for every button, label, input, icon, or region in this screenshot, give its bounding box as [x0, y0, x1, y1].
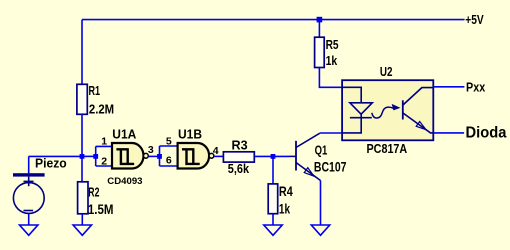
- svg-text:R5: R5: [326, 37, 339, 52]
- svg-text:3: 3: [148, 144, 154, 156]
- svg-text:6: 6: [166, 154, 172, 166]
- wire Pxx: [433, 86, 464, 88]
- wire +5V to R5: [318, 20, 320, 38]
- svg-text:U1A: U1A: [112, 127, 137, 142]
- wire R4 to ground: [272, 214, 274, 225]
- svg-text:R3: R3: [232, 138, 248, 153]
- resistor R5: [315, 37, 325, 67]
- piezo transducer plate: [13, 173, 45, 176]
- ground R2: [73, 225, 91, 235]
- wire U1A pin 1: [96, 145, 112, 147]
- transistor Q1: [289, 133, 321, 180]
- node junction piezo/R1/R2: [80, 154, 85, 159]
- ground piezo: [20, 225, 38, 235]
- op-amp U1B nand gate body: [178, 143, 214, 169]
- wire U1A pin 3 output: [148, 155, 159, 157]
- resistor R4: [268, 184, 278, 214]
- svg-text:+5V: +5V: [465, 12, 484, 27]
- wire node to R4: [272, 156, 274, 184]
- wire node to gate input node: [82, 155, 96, 157]
- svg-text:1k: 1k: [279, 201, 290, 217]
- svg-text:Dioda: Dioda: [466, 125, 507, 142]
- svg-text:U2: U2: [380, 64, 393, 79]
- phototransistor inside U2: [403, 88, 434, 133]
- wire piezo to ground: [28, 213, 30, 225]
- svg-text:2: 2: [101, 155, 107, 167]
- svg-text:R1: R1: [89, 83, 101, 98]
- wire R2 to ground: [81, 214, 83, 225]
- op-amp U1A nand gate body: [112, 143, 148, 169]
- svg-text:Q1: Q1: [315, 142, 328, 157]
- wire U1A pin 2: [96, 165, 112, 167]
- wire Q1 emitter to ground: [320, 181, 322, 226]
- svg-text:CD4093: CD4093: [107, 176, 142, 187]
- resistor R1: [77, 84, 87, 114]
- wire +5V top rail: [82, 19, 465, 21]
- node junction R4/base: [271, 154, 276, 159]
- wire R5 to optocoupler anode: [319, 68, 342, 88]
- wire U1A input vertical: [95, 146, 97, 166]
- svg-text:Pxx: Pxx: [466, 80, 486, 95]
- svg-text:Piezo: Piezo: [35, 155, 67, 170]
- wire left drop from +5V rail to R1: [81, 20, 83, 85]
- svg-text:1k: 1k: [326, 53, 338, 68]
- node junction U1B inputs: [157, 154, 162, 159]
- node junction U1A inputs: [93, 154, 98, 159]
- resistor R3: [223, 152, 254, 162]
- svg-text:2.2M: 2.2M: [89, 102, 114, 117]
- wire Q1 collector to optocoupler: [320, 132, 343, 134]
- ground R4: [264, 225, 282, 235]
- svg-text:R4: R4: [279, 183, 293, 199]
- svg-text:U1B: U1B: [178, 127, 202, 142]
- ground Q1 emitter: [311, 225, 329, 235]
- wire R1 bottom through node to R2: [81, 114, 83, 182]
- svg-text:BC107: BC107: [314, 159, 347, 175]
- wire R3 to Q1 base: [254, 155, 289, 157]
- wire U1B input vertical: [159, 146, 161, 166]
- svg-text:5,6k: 5,6k: [228, 161, 250, 176]
- wire U1B pin 5: [160, 145, 178, 147]
- wire Dioda: [433, 132, 464, 134]
- svg-text:5: 5: [166, 135, 172, 147]
- wire piezo horizontal: [29, 155, 82, 157]
- svg-text:4: 4: [213, 145, 219, 157]
- piezo transducer body: [13, 177, 44, 214]
- wire piezo vertical to plate: [28, 156, 30, 173]
- svg-text:R2: R2: [88, 184, 99, 199]
- diode LED inside U2: [343, 87, 373, 133]
- svg-text:PC817A: PC817A: [367, 141, 408, 156]
- resistor R2: [78, 182, 88, 214]
- node junction +5V/R5: [317, 17, 323, 23]
- wire U1B pin 6: [160, 165, 178, 167]
- svg-text:1: 1: [101, 135, 107, 147]
- wire U1B pin 4 output to R3: [214, 155, 223, 157]
- light arrow inside U2: [372, 105, 400, 118]
- svg-text:1.5M: 1.5M: [88, 201, 114, 217]
- optocoupler U2 box: [342, 80, 433, 140]
